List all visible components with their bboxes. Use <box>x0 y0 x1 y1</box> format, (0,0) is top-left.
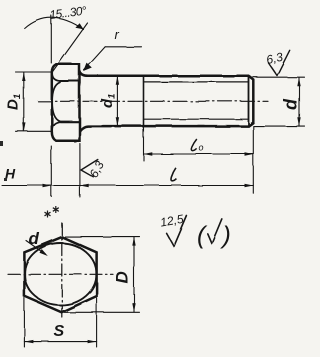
roughness 6,3 top right: legs <box>268 50 289 75</box>
fillet r leader line <box>84 47 105 70</box>
arrow H right-pointing <box>43 184 52 187</box>
head chamfer arc top face <box>52 75 60 81</box>
arrow d bottom <box>297 117 300 126</box>
roughness 6,3 on bearing face: legs <box>81 160 98 178</box>
svg-text:r: r <box>115 27 120 42</box>
chamfer angle dimension arc <box>25 18 84 30</box>
asterisk 1 <box>45 211 51 218</box>
arrow L0 left <box>144 152 153 155</box>
thread minor diameter top line <box>144 81 249 83</box>
svg-text:D: D <box>113 271 132 283</box>
arrow L0 right <box>245 152 254 155</box>
head face division line upper <box>60 80 79 82</box>
svg-text:S: S <box>54 323 65 340</box>
arrow d1 top <box>116 76 119 85</box>
svg-text:d: d <box>29 229 40 248</box>
d extension line top <box>253 76 304 78</box>
S dimension line <box>24 341 96 343</box>
arrow D1 top <box>22 72 25 81</box>
hexagon view vertical centerline <box>61 223 63 318</box>
D extension line top <box>65 236 140 238</box>
asterisk 2 <box>53 206 59 213</box>
d extension line bottom <box>253 125 304 127</box>
D1 dimension line <box>23 72 25 131</box>
label L0 script <box>191 139 196 151</box>
shank and thread outline with end chamfer <box>80 71 254 131</box>
chamfer angle diagonal line <box>53 23 88 71</box>
roughness 12,5 symbol legs <box>167 216 187 246</box>
arrow d1 bottom <box>116 117 119 126</box>
label l script <box>171 168 176 181</box>
edge smudge marks <box>0 141 7 181</box>
head chamfer arc bottom face <box>52 122 60 129</box>
bolt end chamfer line <box>248 76 250 126</box>
head chamfer arc middle face <box>52 82 60 121</box>
head face division line lower <box>60 121 79 123</box>
chamfer circle <box>25 243 97 305</box>
S extension line right <box>96 298 98 347</box>
bolt head outline <box>52 64 80 140</box>
d1 dimension line <box>116 76 118 126</box>
l right extension line <box>252 127 254 194</box>
arrowheads <box>22 23 301 343</box>
S extension line left <box>23 298 25 347</box>
chamfer angle extension line vertical <box>50 16 52 64</box>
L0 left extension (thread start below) <box>143 126 145 160</box>
roughness in parentheses check <box>207 219 222 244</box>
H and l dimension line <box>2 185 253 187</box>
D1 extension line top <box>16 71 52 73</box>
arrow r leader <box>83 63 92 71</box>
arrow S right <box>88 340 97 343</box>
D extension line bottom <box>64 311 140 313</box>
D dimension line <box>133 237 135 312</box>
arrow l right-pointing <box>245 184 254 187</box>
thread runout line <box>143 76 145 126</box>
svg-text:o: o <box>199 143 204 153</box>
arrow S left <box>25 340 34 343</box>
arrow d top <box>297 77 300 86</box>
arrow D top <box>132 237 135 246</box>
thread minor diameter bottom line <box>144 118 249 120</box>
hexagon view horizontal centerline <box>8 273 113 275</box>
H / l shared extension line bearing face <box>79 144 81 198</box>
d dimension line <box>298 77 300 126</box>
svg-text:d: d <box>281 98 301 110</box>
hexagon outline <box>24 237 96 312</box>
arrow angle arc end <box>75 23 83 29</box>
arrow D1 bottom <box>22 122 25 131</box>
d leader line (hex view) <box>26 241 46 255</box>
H extension line left <box>50 146 52 197</box>
fillet r leader shelf <box>105 46 141 48</box>
bolt axis centerline <box>38 100 268 102</box>
L0 dimension line <box>144 153 254 155</box>
arrow l left-pointing <box>80 184 89 187</box>
arrow D bottom <box>132 303 135 312</box>
arrow hex d leader <box>40 249 48 256</box>
D1 extension line bottom <box>16 130 52 132</box>
